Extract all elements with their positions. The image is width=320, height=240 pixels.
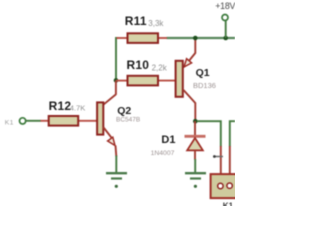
- wire relay coil right from edge: [230, 121, 235, 183]
- wire bus +18V horizontal: [167, 37, 236, 39]
- svg-text:D1: D1: [161, 134, 175, 146]
- diode D1: [185, 121, 206, 160]
- resistor R10: [116, 76, 175, 86]
- Q1 emitter pin from bus: [194, 38, 196, 54]
- svg-text:R12: R12: [49, 99, 72, 113]
- D1 anode triangle: [187, 138, 203, 150]
- node junction R10 tap: [114, 78, 119, 83]
- svg-text:+18V: +18V: [215, 1, 235, 11]
- ground GND D1: [185, 173, 206, 188]
- relay K1 body: [211, 174, 238, 198]
- net tick mark: [213, 155, 223, 158]
- supply +18V terminal: [222, 15, 228, 39]
- transistor Q2: [97, 80, 116, 156]
- transistor Q1: [176, 38, 196, 121]
- svg-text:Q2: Q2: [117, 105, 131, 117]
- node bus junction +18V: [223, 36, 228, 41]
- svg-text:K1: K1: [223, 202, 234, 207]
- svg-text:3,3k: 3,3k: [148, 19, 164, 28]
- Q2 emitter with arrow: [103, 127, 112, 138]
- Q1 collector: [184, 90, 196, 103]
- wire left elbow from R11 down: [116, 38, 118, 80]
- wire relay coil left: [197, 121, 221, 183]
- resistor R12: [41, 116, 98, 126]
- Q2 base bar: [97, 102, 103, 134]
- terminal K1 input: [20, 118, 42, 124]
- svg-text:2,2k: 2,2k: [152, 63, 168, 72]
- svg-text:Q1: Q1: [196, 67, 210, 79]
- wire Q2 emitter to ground: [115, 156, 117, 173]
- Q1 base bar: [176, 61, 183, 97]
- svg-text:BC547B: BC547B: [116, 117, 140, 124]
- D1 cathode bar: [185, 135, 206, 138]
- svg-text:R11: R11: [125, 14, 147, 28]
- svg-text:4.7K: 4.7K: [70, 103, 86, 112]
- ground GND Q2: [106, 173, 127, 188]
- svg-text:K1: K1: [5, 120, 14, 127]
- node Q1 collector junction: [193, 119, 198, 124]
- node bus junction Q1 emitter: [193, 36, 198, 41]
- svg-text:R10: R10: [127, 58, 150, 72]
- svg-text:1N4007: 1N4007: [151, 150, 175, 157]
- wire D1 anode to ground: [194, 159, 196, 172]
- Q1 emitter arrow (PNP, points into bar): [184, 59, 192, 67]
- svg-text:BD136: BD136: [193, 81, 216, 90]
- Q2 collector wire from junction: [115, 80, 117, 94]
- resistor R11: [117, 33, 168, 43]
